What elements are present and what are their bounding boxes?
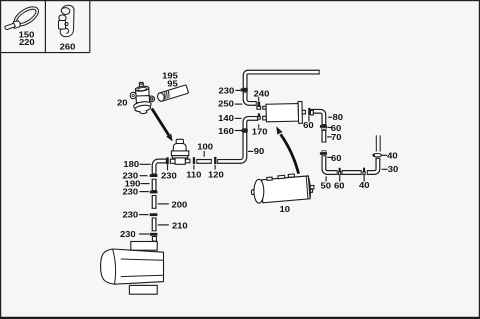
svg-text:260: 260 xyxy=(60,42,76,51)
svg-text:10: 10 xyxy=(279,205,290,214)
svg-text:220: 220 xyxy=(19,38,35,47)
svg-text:95: 95 xyxy=(167,79,178,88)
svg-text:210: 210 xyxy=(172,221,188,230)
svg-text:200: 200 xyxy=(172,200,188,209)
svg-text:230: 230 xyxy=(122,210,138,219)
svg-text:60: 60 xyxy=(303,121,314,130)
svg-text:250: 250 xyxy=(218,99,234,108)
svg-text:160: 160 xyxy=(218,127,234,136)
svg-text:230: 230 xyxy=(122,187,138,196)
svg-text:70: 70 xyxy=(331,133,342,142)
svg-text:40: 40 xyxy=(387,151,398,160)
svg-text:230: 230 xyxy=(161,171,177,180)
svg-text:60: 60 xyxy=(331,154,342,163)
svg-text:20: 20 xyxy=(117,98,128,107)
svg-text:40: 40 xyxy=(359,181,370,190)
svg-text:170: 170 xyxy=(252,127,268,136)
svg-text:230: 230 xyxy=(219,86,235,95)
svg-text:30: 30 xyxy=(388,165,399,174)
svg-text:230: 230 xyxy=(120,230,136,239)
svg-text:140: 140 xyxy=(218,114,234,123)
svg-text:180: 180 xyxy=(123,160,139,169)
svg-text:60: 60 xyxy=(334,181,345,190)
svg-text:90: 90 xyxy=(254,147,265,156)
svg-text:80: 80 xyxy=(332,113,343,122)
svg-text:50: 50 xyxy=(321,181,332,190)
svg-text:100: 100 xyxy=(197,142,213,151)
svg-text:120: 120 xyxy=(208,170,224,179)
svg-text:110: 110 xyxy=(186,170,201,179)
svg-text:240: 240 xyxy=(254,89,270,98)
